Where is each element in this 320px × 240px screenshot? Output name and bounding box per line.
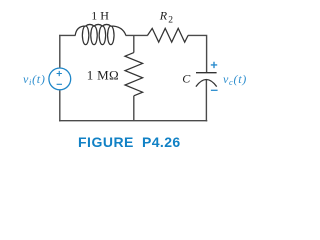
svg-text:1 H: 1 H bbox=[91, 9, 109, 23]
source Vi (circle) bbox=[49, 68, 71, 90]
wire: capacitor bottom lead bbox=[205, 80, 207, 122]
capacitor plus sign bbox=[211, 62, 217, 68]
source minus sign bbox=[57, 83, 62, 85]
svg-text:vc(t): vc(t) bbox=[223, 72, 247, 87]
capacitor minus sign bbox=[211, 89, 218, 91]
resistor R2 (horizontal zigzag) bbox=[148, 28, 189, 42]
wire: top rail from corner to inductor bbox=[59, 34, 75, 36]
wire: middle branch resistor to bottom rail bbox=[133, 96, 135, 121]
wire: left vertical bottom (source to bottom rail) bbox=[59, 90, 61, 122]
wire: top rail inductor to R2 bbox=[126, 34, 148, 36]
inductor L (1 H coil) bbox=[75, 24, 126, 44]
svg-text:C: C bbox=[182, 72, 191, 86]
capacitor C top plate bbox=[196, 72, 217, 74]
wire: left vertical top (corner to source) bbox=[59, 35, 61, 68]
svg-text:R2: R2 bbox=[159, 9, 173, 26]
wire: middle branch junction down to resistor bbox=[133, 35, 135, 52]
svg-text:1 MΩ: 1 MΩ bbox=[87, 67, 119, 82]
wire: bottom rail bbox=[59, 120, 207, 122]
svg-text:FIGURE: FIGURE bbox=[78, 134, 134, 150]
svg-text:vi(t): vi(t) bbox=[23, 72, 46, 87]
source plus sign bbox=[57, 71, 62, 76]
svg-text:P4.26: P4.26 bbox=[142, 134, 181, 150]
resistor 1 Mohm (vertical zigzag) bbox=[125, 53, 143, 96]
capacitor C curved plate bbox=[196, 80, 217, 87]
wire: top rail R2 to top-right corner and down bbox=[188, 35, 207, 72]
